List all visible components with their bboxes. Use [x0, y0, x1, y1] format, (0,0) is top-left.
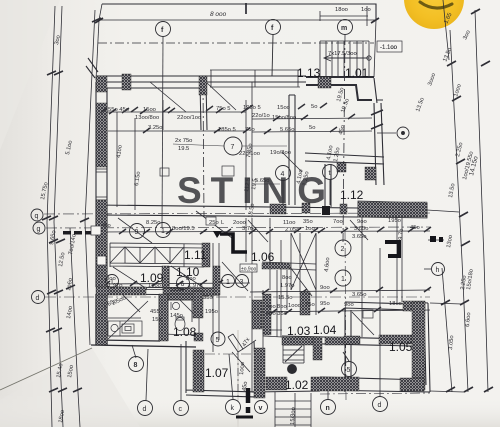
extension line x246: [245, 100, 247, 210]
bottom wall hatch b: [311, 377, 359, 391]
axis dashdot y395 right: [320, 393, 430, 394]
svg-text:3.o5o: 3.o5o: [448, 335, 455, 350]
svg-text:1: 1: [226, 279, 230, 286]
1.02 top wall lines: [263, 330, 282, 337]
svg-text:9oo: 9oo: [357, 219, 367, 225]
svg-text:7: 7: [231, 144, 235, 151]
dim line row3 y283 left: [96, 283, 250, 290]
axis dashdot x345: [345, 230, 346, 400]
svg-text:q: q: [35, 213, 39, 220]
svg-text:3: 3: [240, 279, 244, 286]
dim row 2 texts: [101, 218, 420, 240]
svg-text:1.04: 1.04: [313, 323, 337, 337]
top wall heavy right: [306, 77, 374, 100]
svg-text:195o: 195o: [205, 309, 218, 315]
top small dim 18oo: [320, 6, 368, 26]
svg-text:15oo/8oo: 15oo/8oo: [272, 115, 296, 121]
middle wall hatch c: [340, 204, 347, 214]
stair diagonal: [285, 346, 302, 362]
circle n: [321, 400, 336, 415]
terrace dim ticks: [95, 3, 379, 23]
circle v: [255, 401, 268, 414]
dim line row3 right y290: [250, 290, 430, 292]
svg-text:9oo: 9oo: [320, 285, 330, 291]
svg-text:5: 5: [216, 337, 220, 344]
svg-text:4oo: 4oo: [266, 304, 276, 310]
small texts near 1.08: [102, 287, 218, 323]
bottom shadow: [0, 395, 500, 427]
svg-text:15oo: 15oo: [277, 105, 290, 111]
hatched walls: [96, 74, 427, 398]
axis leader f: [162, 37, 163, 228]
wardrobe right pier: [202, 243, 210, 267]
top-left page tint: [0, 0, 60, 150]
circle 8: [129, 357, 144, 372]
axis circles: [31, 20, 445, 416]
svg-text:1.97o: 1.97o: [280, 283, 295, 289]
extension lines upper rooms: [117, 100, 163, 210]
svg-text:5o: 5o: [311, 104, 317, 110]
axis dashdot q y213: [44, 213, 430, 214]
svg-text:9: 9: [135, 229, 139, 236]
top-left corner pier: [96, 76, 107, 92]
svg-text:3.65o: 3.65o: [352, 234, 367, 240]
svg-text:6: 6: [181, 281, 185, 288]
right leaders: [427, 210, 464, 392]
top wall pier2: [199, 76, 207, 95]
svg-text:1oo: 1oo: [305, 226, 315, 232]
room 1.06 interior verticals: [277, 233, 316, 337]
1.09 divider: [162, 266, 169, 288]
terrace left edge: [96, 20, 99, 80]
middle wall double line: [96, 205, 358, 217]
1.07 left wall: [193, 350, 204, 392]
circle g: [33, 222, 45, 234]
right chain line inner: [450, 30, 468, 392]
room 1.06 bottom wall thin: [262, 262, 316, 270]
small stair 1.02: [283, 345, 304, 363]
circle 2: [335, 240, 351, 256]
bath right wall hatch: [193, 291, 203, 318]
boxed level 0.9: [240, 264, 257, 272]
left wall hatch mid: [96, 200, 107, 287]
svg-text:c: c: [179, 406, 183, 413]
svg-text:4.6oo: 4.6oo: [324, 257, 331, 272]
circle c: [174, 401, 189, 416]
bottom wall hatch a: [266, 377, 287, 390]
svg-text:-1.1oo: -1.1oo: [380, 45, 398, 51]
svg-text:3.65o: 3.65o: [352, 292, 367, 298]
terrace right edge: [374, 20, 376, 77]
circle f2: [266, 20, 281, 77]
svg-text:2: 2: [341, 246, 345, 253]
svg-text:22o/1o: 22o/1o: [252, 113, 270, 119]
rotated dim texts right chain: [296, 12, 480, 350]
column 1.05: [363, 310, 373, 318]
svg-text:25o: 25o: [209, 220, 219, 226]
svg-text:1ooo: 1ooo: [288, 303, 301, 309]
corridor pier x213: [213, 266, 220, 295]
stair arrow: [324, 55, 369, 61]
left wall hatch upper: [96, 103, 107, 167]
bottom wall hatch c: [400, 378, 424, 391]
top wall thin left: [96, 76, 306, 88]
kitchen 1.08 walls: [91, 294, 196, 347]
dim ticks row A: [100, 103, 327, 113]
svg-text:8oo: 8oo: [277, 304, 287, 310]
circle 1a: [156, 223, 171, 238]
svg-text:8 ooo: 8 ooo: [210, 11, 227, 18]
circle q: [31, 209, 43, 221]
kitchen counter line: [108, 318, 141, 336]
svg-text:d: d: [36, 295, 40, 302]
svg-text:m: m: [341, 25, 347, 32]
axis dashdot y354: [205, 353, 258, 355]
left wall hatch low: [96, 294, 107, 345]
dim lines right room: [252, 118, 372, 132]
terrace top edge: [102, 4, 376, 20]
svg-text:9oo: 9oo: [344, 302, 354, 308]
svg-text:7x17.5/3oo: 7x17.5/3oo: [328, 51, 357, 57]
wall 1.04 bottom b: [325, 337, 346, 345]
left chain line 3 total: [85, 10, 95, 345]
circle 7: [224, 137, 242, 155]
room 1.09/1.10 divider: [163, 267, 169, 287]
svg-text:n: n: [326, 405, 330, 412]
svg-text:9.7o: 9.7o: [398, 228, 405, 240]
pier 1.03/1.04: [300, 292, 310, 315]
window band top center: [210, 70, 300, 87]
diag hatch bar k: [228, 334, 256, 352]
corridor walls x213: [213, 243, 219, 352]
row2 ticks: [96, 227, 431, 234]
svg-text:2.05o: 2.05o: [285, 227, 300, 233]
svg-text:d: d: [378, 402, 382, 409]
stair top treads: [320, 41, 369, 76]
stair arrow circle end: [367, 56, 371, 60]
svg-text:8.25o: 8.25o: [146, 220, 161, 226]
svg-text:1: 1: [110, 279, 114, 286]
wardrobe band 1.11: [110, 243, 204, 267]
left wall window gap lines: [96, 169, 107, 200]
terrace corner slant: [99, 4, 102, 20]
black section marker k: [246, 388, 251, 413]
svg-text:t: t: [329, 170, 331, 177]
svg-text:1.03: 1.03: [287, 324, 311, 338]
svg-text:1.12: 1.12: [340, 188, 364, 202]
interior wall x289: [289, 95, 295, 205]
svg-text:35o: 35o: [203, 295, 213, 301]
svg-text:1.13: 1.13: [297, 66, 321, 80]
toilet: [175, 318, 185, 331]
circle k: [226, 400, 241, 415]
black step wall B: [385, 242, 399, 256]
right chain line short top: [443, 0, 449, 60]
black section bars right: [430, 236, 436, 242]
svg-text:1ooo: 1ooo: [239, 362, 246, 375]
right wall upper: [374, 78, 384, 185]
axis dashdot x203: [203, 85, 204, 217]
floor box b: [222, 166, 234, 176]
svg-text:19.5: 19.5: [178, 146, 189, 152]
right chain ticks: [441, 9, 493, 392]
top wall pier3: [318, 77, 331, 88]
circle 6: [177, 277, 190, 290]
wall 1.05 inner top: [379, 335, 412, 344]
svg-text:15/3oo: 15/3oo: [290, 407, 297, 425]
circle 1b: [106, 275, 119, 288]
sill box corridor: [206, 217, 216, 225]
svg-text:35o: 35o: [303, 219, 313, 225]
floor box a: [160, 168, 169, 176]
circle 1c: [222, 275, 235, 288]
axis leader d1: [146, 349, 148, 400]
circle 5b: [342, 352, 357, 377]
svg-text:h: h: [436, 267, 440, 274]
door swings: [108, 82, 374, 372]
svg-text:195o: 195o: [388, 218, 401, 224]
svg-text:185o 5: 185o 5: [218, 127, 236, 133]
window sill box left: [91, 226, 101, 235]
svg-text:3.7oo: 3.7oo: [242, 226, 257, 232]
bath left wall: [159, 294, 168, 341]
fold scribbles top-left: [86, 58, 98, 78]
middle wall right heavy band outline: [358, 201, 427, 218]
right wall pier 1.12: [365, 167, 376, 180]
svg-text:3.25o: 3.25o: [148, 125, 163, 131]
svg-text:6.6oo: 6.6oo: [465, 312, 472, 327]
svg-text:2x 75o: 2x 75o: [175, 138, 192, 144]
svg-text:1.97o: 1.97o: [188, 283, 203, 289]
sticker smile stroke: [420, 2, 452, 8]
svg-text:1.09: 1.09: [140, 271, 164, 285]
dim row 3 texts: [106, 275, 367, 301]
axis leader m: [343, 35, 345, 242]
1.06 bottom wall: [262, 263, 290, 269]
bottom wall 1.09 hatch b: [163, 288, 214, 296]
circle f: [156, 22, 171, 37]
circle a: [288, 365, 297, 374]
svg-text:1.10: 1.10: [176, 265, 200, 279]
svg-text:75o: 75o: [305, 302, 315, 308]
leader e: [377, 132, 396, 134]
circle 3: [236, 275, 249, 288]
right chain line r0: [442, 268, 452, 392]
svg-text:8: 8: [134, 362, 138, 369]
dim line row4 y311: [250, 310, 430, 312]
svg-text:1: 1: [161, 228, 165, 235]
leader 8: [132, 345, 136, 358]
circle e: [397, 127, 409, 139]
dim lines left rooms: [96, 112, 246, 131]
svg-text:22oo/1oo: 22oo/1oo: [177, 115, 201, 121]
leader h: [424, 268, 431, 270]
svg-text:13oo/8oo: 13oo/8oo: [135, 115, 159, 121]
circle d bottom1: [138, 401, 153, 416]
svg-text:4: 4: [281, 171, 285, 178]
1.05 right wall: [412, 302, 425, 390]
svg-text:1.07: 1.07: [205, 366, 229, 380]
window sill box left2: [97, 256, 106, 265]
circle 4: [276, 166, 291, 206]
circle d left: [32, 291, 45, 304]
black shaft middle wall: [322, 206, 330, 215]
corridor lines x246-252: [246, 218, 252, 290]
terrace 1.07 outline: [186, 341, 258, 397]
svg-text:3.05o: 3.05o: [354, 226, 369, 232]
wardrobe diagonals: [110, 244, 184, 267]
middle wall hatch a: [270, 204, 286, 214]
left chain ticks: [42, 18, 101, 392]
svg-text:1: 1: [341, 276, 345, 283]
axis leader c: [180, 344, 182, 400]
svg-text:1.02: 1.02: [285, 378, 309, 392]
circle 1d: [335, 270, 351, 286]
left chain line 1: [47, 6, 55, 427]
circle d bottom2: [373, 397, 388, 412]
svg-text:7oo: 7oo: [333, 219, 343, 225]
left wall faces: [96, 82, 107, 287]
black step wall A: [220, 234, 247, 252]
svg-text:1.05: 1.05: [389, 340, 413, 354]
svg-text:1.08: 1.08: [173, 325, 197, 339]
dim line row2 y231: [96, 231, 430, 232]
kitchen fixtures: [108, 41, 402, 336]
1.02 left wall hatch low: [254, 348, 265, 398]
circle h: [432, 263, 445, 276]
middle wall big right band: [358, 202, 427, 217]
svg-text:1.11: 1.11: [184, 248, 207, 262]
1.02 left wall hatch up: [252, 300, 262, 329]
svg-text:k: k: [231, 405, 235, 412]
axis leader d2: [379, 340, 381, 396]
svg-text:75o 5: 75o 5: [216, 106, 231, 112]
circle t: [323, 165, 338, 206]
bath walls: [159, 294, 199, 341]
svg-text:15.5o: 15.5o: [278, 295, 293, 301]
right wall window ticks: [371, 110, 383, 129]
svg-text:15o: 15o: [152, 317, 162, 323]
bath top hatch: [168, 294, 194, 300]
top wall pier1: [122, 74, 131, 90]
svg-text:18oo: 18oo: [389, 301, 402, 307]
1.02 left wall: [252, 290, 263, 392]
dim row upper y233 small vertical refs: [270, 217, 402, 337]
right chain line outer: [475, 10, 488, 392]
axis dashdot g y228: [46, 227, 430, 228]
pier mid 1.04: [313, 337, 322, 360]
svg-text:g: g: [37, 226, 41, 233]
svg-text:v: v: [259, 405, 263, 412]
page edge diagonal: [0, 348, 92, 390]
svg-text:95o: 95o: [320, 301, 330, 307]
dim row 4 texts: [266, 301, 402, 317]
building bottom right wall: [252, 377, 430, 392]
svg-text:11oo: 11oo: [283, 220, 295, 226]
interior wall x203 upper: [200, 82, 207, 130]
svg-text:45o: 45o: [410, 225, 420, 231]
svg-text:145o: 145o: [170, 313, 183, 319]
svg-text:d: d: [143, 406, 147, 413]
svg-text:5.65o: 5.65o: [280, 127, 295, 133]
circle 9: [130, 224, 145, 239]
left chain line 2b: [70, 228, 80, 427]
dim text row A: [108, 104, 317, 184]
circle 5a: [211, 332, 225, 346]
rotated dim texts left chain: [40, 35, 258, 424]
circle m: [338, 20, 353, 35]
axis dashdot d y297: [45, 296, 430, 298]
svg-text:18oo: 18oo: [335, 7, 348, 13]
interior line x253 upper: [251, 82, 253, 207]
room 1.05 outline: [345, 302, 412, 392]
svg-text:a: a: [290, 368, 293, 374]
axis leader n: [327, 385, 329, 399]
black axis dashes g: [63, 231, 71, 235]
1.03 left wall: [263, 294, 271, 335]
1.05 top right corner: [403, 301, 425, 311]
svg-text:8oo/19.5: 8oo/19.5: [172, 226, 195, 232]
axis dashdot x238: [237, 352, 239, 398]
terrace dim line 8ooo: [99, 19, 375, 21]
bottom wall 1.09 hatch a: [96, 287, 146, 295]
terrace dashed centerline: [98, 42, 374, 44]
row3 ticks: [103, 280, 223, 286]
svg-text:455: 455: [150, 309, 160, 315]
svg-text:4oo 35o: 4oo 35o: [266, 311, 287, 317]
1.12 inner pier: [337, 163, 346, 172]
svg-text:8oo: 8oo: [282, 275, 292, 281]
svg-text:5o: 5o: [309, 125, 315, 131]
bottom exterior stair: [275, 392, 311, 427]
svg-text:19o/8oo: 19o/8oo: [270, 150, 291, 156]
yellow sticker: [404, 0, 464, 29]
middle wall hatch b: [302, 203, 310, 213]
boxed level 1.1oo: [377, 41, 402, 52]
wall under 1.03/1.04: [282, 336, 412, 346]
svg-text:±o,9oo: ±o,9oo: [241, 267, 256, 273]
1.06 big X diagonals: [290, 233, 316, 296]
svg-text:1.01: 1.01: [345, 66, 369, 80]
bath pier low: [194, 333, 203, 341]
svg-text:15oo: 15oo: [143, 107, 156, 113]
sink 1.08: [172, 302, 179, 309]
svg-text:1oo: 1oo: [361, 7, 371, 13]
center fold crease: [237, 330, 239, 427]
building right lower outline: [412, 302, 430, 392]
wall 1.05 inner small: [344, 336, 360, 344]
wall 1.03 bottom a: [282, 337, 313, 345]
svg-text:45o: 45o: [101, 223, 111, 229]
bottom wall 1.09 row: [96, 287, 219, 295]
svg-text:1.06: 1.06: [251, 250, 275, 264]
room 1.12 top wall: [305, 153, 384, 207]
leader k: [229, 354, 233, 399]
svg-text:5: 5: [347, 367, 351, 374]
svg-text:75o: 75o: [245, 127, 255, 133]
left chain line 2: [54, 6, 63, 427]
